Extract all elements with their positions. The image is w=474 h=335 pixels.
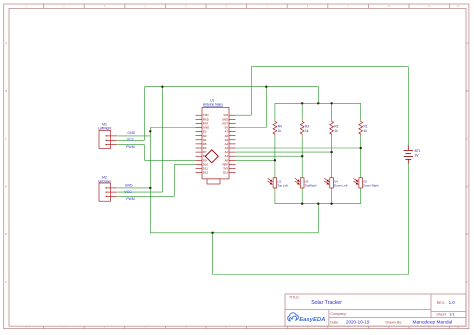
wire 5V drop to M2 VCC (161, 87, 163, 192)
wire 5V from Arduino 5V pin (236, 127, 267, 129)
wire M2 PWM branch (118, 195, 174, 197)
resistor R3 (300, 120, 309, 135)
junction J11 (274, 159, 276, 161)
connector M1 LeftRight (98, 123, 118, 149)
wire LDR bottom rail (275, 203, 361, 205)
svg-text:R2: R2 (334, 124, 338, 128)
photoresistor U4 Down Left (324, 178, 347, 188)
svg-text:D: D (466, 184, 468, 188)
wire battery negative riser (407, 164, 409, 275)
svg-text:GND: GND (127, 131, 135, 135)
photoresistor U3 TopRight (295, 178, 317, 188)
svg-text:R3: R3 (305, 124, 309, 128)
svg-text:Drawn By:: Drawn By: (386, 320, 403, 324)
wire branch 2 middle (301, 136, 303, 178)
wire GND drop to battery loop (212, 233, 214, 275)
svg-text:D: D (5, 184, 7, 188)
svg-text:1.0: 1.0 (449, 300, 456, 305)
svg-text:A: A (466, 41, 468, 45)
svg-text:Top Left: Top Left (277, 184, 288, 188)
wire D10 run (174, 163, 195, 165)
svg-text:E: E (5, 232, 7, 236)
wire M1 GND branch (118, 135, 150, 137)
svg-text:B: B (466, 89, 468, 93)
svg-text:PWM: PWM (126, 145, 135, 149)
svg-text:C: C (5, 137, 7, 141)
junction J8 (360, 147, 362, 149)
junction J2 (149, 187, 151, 189)
junction J5 (301, 102, 303, 104)
svg-text:1k: 1k (305, 129, 309, 133)
svg-text:Arduino Nano: Arduino Nano (203, 103, 223, 107)
wire 5V rail (145, 86, 319, 88)
wire GND riser to LDR bottom rail (317, 204, 319, 233)
junction J15 (211, 232, 213, 234)
wire branch 4 upper (360, 103, 362, 120)
svg-text:1k: 1k (364, 129, 368, 133)
wire battery bottom loop (213, 274, 409, 276)
wire M2 GND branch (118, 187, 150, 189)
junction J14 (330, 203, 332, 205)
wire M1 VCC branch (118, 139, 145, 141)
svg-text:TITLE:: TITLE: (289, 296, 300, 300)
wire GND vertical trunk (149, 128, 151, 233)
svg-text:Date:: Date: (330, 321, 339, 325)
svg-text:TopRight: TopRight (305, 184, 317, 188)
wire battery positive drop (407, 67, 409, 146)
wire VIN riser (250, 67, 252, 116)
svg-text:1k: 1k (334, 129, 338, 133)
wire D9 to M1 PWM run (145, 159, 196, 161)
svg-text:Solar Tracker: Solar Tracker (311, 300, 342, 306)
junction J6 (317, 102, 319, 104)
battery BT1 9V (404, 145, 421, 163)
wire branch 4 middle (360, 136, 362, 178)
wire branch 2 lower (301, 188, 303, 204)
svg-text:D13: D13 (223, 171, 229, 175)
svg-text:R1: R1 (364, 124, 368, 128)
wire VIN from Arduino (236, 114, 252, 116)
svg-text:D12: D12 (203, 171, 209, 175)
wire M2 VCC branch (118, 191, 162, 193)
wire VIN top run (251, 66, 408, 68)
wire branch 3 upper (331, 103, 333, 120)
wire 5V drop to resistor top rail (317, 87, 319, 104)
svg-text:F: F (5, 280, 7, 284)
wire A2 sense (236, 151, 332, 153)
svg-text:A: A (5, 41, 7, 45)
junction J10 (301, 155, 303, 157)
wire branch 1 upper (274, 103, 276, 120)
wire resistor top rail (275, 102, 361, 104)
wire M1 PWM jog (144, 145, 146, 161)
wire 5V drop to M1 VCC (144, 87, 146, 141)
resistor R1 (359, 120, 368, 135)
svg-text:Manodeep Mandal: Manodeep Mandal (413, 320, 453, 326)
connector M2 UpDown (98, 176, 118, 202)
wire M1 PWM branch (118, 144, 145, 146)
junction J3 (161, 86, 163, 88)
svg-text:VCC: VCC (127, 138, 135, 142)
svg-text:B: B (5, 89, 7, 93)
wire A3 sense (236, 147, 361, 149)
resistor R4 (273, 120, 282, 135)
op-amp U1 Arduino Nano (196, 98, 236, 184)
wire branch 2 upper (301, 103, 303, 120)
svg-text:C: C (466, 137, 468, 141)
wire M2 PWM jog (173, 164, 175, 196)
wire branch 3 middle (331, 136, 333, 178)
svg-text:Sheet:: Sheet: (436, 313, 446, 317)
svg-text:1/1: 1/1 (449, 313, 454, 317)
svg-text:VCC: VCC (124, 190, 132, 194)
junction J12 (301, 203, 303, 205)
svg-text:Company:: Company: (330, 312, 346, 316)
title block (285, 294, 466, 326)
wire branch 1 lower (274, 188, 276, 204)
svg-text:F: F (467, 280, 469, 284)
svg-text:GND: GND (125, 184, 133, 188)
wire GND bottom run to LDR rail (150, 232, 318, 234)
junction J1 (149, 130, 151, 132)
junction J7 (330, 102, 332, 104)
svg-text:1k: 1k (278, 129, 282, 133)
wire branch 4 lower (360, 188, 362, 204)
svg-text:EasyEDA: EasyEDA (299, 317, 325, 323)
wire branch 3 lower (331, 188, 333, 204)
svg-text:E: E (466, 232, 468, 236)
junction J9 (330, 151, 332, 153)
wire A1 sense (236, 155, 303, 157)
svg-text:BT1: BT1 (415, 149, 421, 153)
svg-text:R4: R4 (278, 124, 282, 128)
wire 5V riser (265, 87, 267, 128)
svg-text:2020-10-19: 2020-10-19 (346, 320, 370, 325)
wire GND net: Arduino GND to junction (150, 127, 195, 129)
EasyEDA logo (288, 313, 326, 323)
junction J4 (265, 86, 267, 88)
resistor R2 (330, 120, 339, 135)
wire A0 sense (236, 159, 275, 161)
svg-text:REV:: REV: (437, 301, 445, 305)
svg-text:Down Right: Down Right (363, 184, 379, 188)
photoresistor U5 Down Right (353, 178, 378, 188)
junction J13 (317, 203, 319, 205)
svg-text:PWM: PWM (126, 197, 135, 201)
photoresistor U2 Top Left (268, 178, 289, 188)
svg-text:U1: U1 (210, 98, 214, 102)
wire branch 1 middle (274, 136, 276, 178)
svg-text:Down Left: Down Left (334, 184, 348, 188)
